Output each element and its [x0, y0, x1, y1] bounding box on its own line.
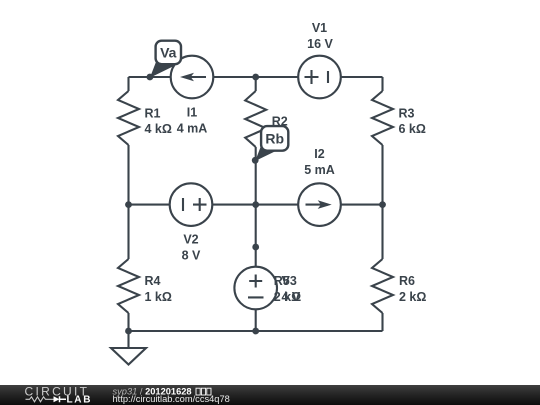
svg-text:16 V: 16 V	[307, 37, 333, 51]
svg-text:2 kΩ: 2 kΩ	[399, 290, 426, 304]
I2 arrowhead	[318, 200, 332, 209]
voltage source V2	[170, 183, 213, 226]
node dot Rb	[252, 157, 259, 164]
svg-text:1 kΩ: 1 kΩ	[145, 290, 172, 304]
node dot mid-center	[252, 201, 259, 208]
node dot mid-left	[125, 201, 132, 208]
voltage source V1	[298, 56, 341, 99]
svg-text:I2: I2	[314, 147, 324, 161]
current source I1	[171, 56, 214, 99]
wire left column	[127, 77, 129, 331]
node dot top-center	[252, 74, 259, 81]
svg-text:R6: R6	[399, 274, 415, 288]
node dot Va	[147, 74, 154, 81]
svg-text:5 mA: 5 mA	[304, 163, 335, 177]
resistor R3	[372, 91, 393, 145]
logo diode	[54, 396, 60, 402]
svg-text:V2: V2	[183, 232, 198, 246]
svg-text:http://circuitlab.com/ccs4q78: http://circuitlab.com/ccs4q78	[113, 394, 230, 404]
svg-text:Va: Va	[160, 45, 177, 61]
svg-text:4 mA: 4 mA	[177, 122, 208, 136]
node dot R5/V3	[252, 244, 259, 251]
node dot bottom-left	[125, 328, 132, 335]
svg-text:V3: V3	[282, 274, 297, 288]
node dot bottom-center	[252, 328, 259, 335]
current source I2	[298, 183, 341, 226]
I1 arrowhead	[180, 73, 194, 82]
svg-text:R4: R4	[145, 274, 161, 288]
footer bar	[0, 385, 540, 405]
svg-text:LAB: LAB	[67, 395, 93, 405]
probe Rb box	[261, 126, 288, 151]
V3 plus minus	[248, 275, 264, 298]
ground	[111, 331, 146, 365]
I2 arrow	[306, 204, 329, 206]
Rb pointer wedge	[255, 142, 282, 161]
resistor R6	[372, 259, 393, 313]
voltage source V3	[234, 267, 277, 310]
wire middle rail	[129, 204, 383, 206]
wire center column	[255, 77, 257, 331]
svg-text:R1: R1	[145, 106, 161, 120]
resistor R4	[118, 259, 139, 313]
svg-text:V1: V1	[312, 21, 327, 35]
I1 arrow	[184, 76, 206, 78]
resistor R2	[245, 91, 266, 147]
svg-text:6 kΩ: 6 kΩ	[399, 122, 426, 136]
V2 plus minus	[183, 198, 207, 211]
Va pointer wedge	[150, 58, 177, 78]
svg-text:I1: I1	[187, 106, 197, 120]
logo resistor squiggle	[26, 397, 54, 402]
V1 plus minus	[305, 70, 329, 84]
resistor R1	[118, 91, 139, 145]
svg-text:R3: R3	[399, 106, 415, 120]
svg-text:Rb: Rb	[265, 130, 284, 146]
footer tofu boxes	[196, 388, 211, 395]
probe Va box	[156, 41, 181, 64]
wire top rail	[129, 76, 383, 78]
node dot mid-right	[379, 201, 386, 208]
svg-text:4 kΩ: 4 kΩ	[145, 122, 172, 136]
wire right column	[381, 77, 383, 331]
svg-text:8 V: 8 V	[182, 248, 201, 262]
wire bottom rail	[129, 330, 383, 332]
svg-text:4 V: 4 V	[282, 290, 301, 304]
